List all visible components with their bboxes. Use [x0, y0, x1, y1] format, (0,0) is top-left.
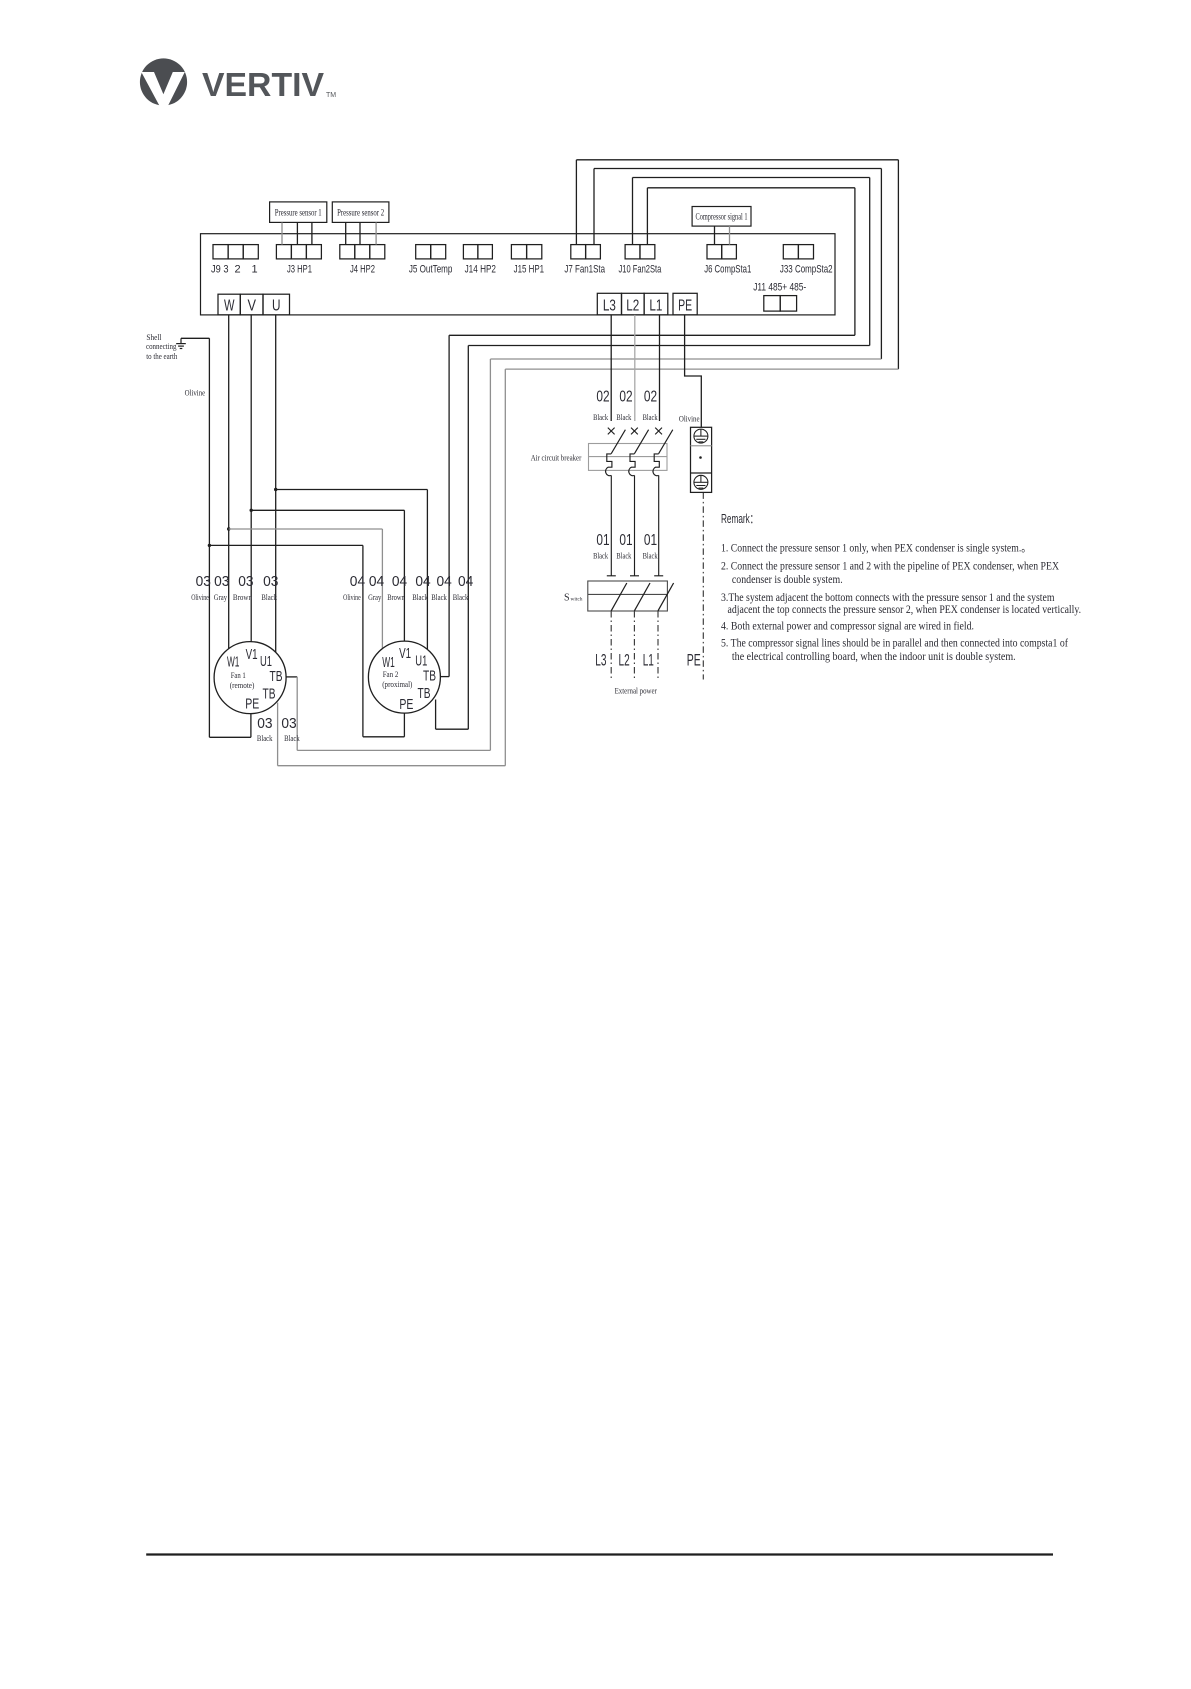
wire W branch run	[229, 528, 383, 530]
svg-text:L2: L2	[619, 651, 630, 669]
svg-text:Brown: Brown	[233, 592, 253, 602]
svg-text:03: 03	[214, 574, 229, 590]
svg-text:03: 03	[281, 716, 296, 732]
svg-text:U: U	[272, 298, 281, 315]
svg-text:Black: Black	[257, 733, 273, 743]
svg-text:2. Connect the pressure sensor: 2. Connect the pressure sensor 1 and 2 w…	[721, 561, 1060, 573]
svg-text:Black: Black	[453, 592, 469, 602]
svg-text:Brown: Brown	[387, 592, 405, 602]
wire fan1 TB2 drop	[277, 703, 279, 766]
svg-text:PE: PE	[399, 697, 413, 713]
svg-text:04: 04	[392, 574, 407, 590]
wire olivine vertical fan1	[208, 338, 210, 737]
svg-text:Black: Black	[284, 733, 300, 743]
svg-text:Fan 1: Fan 1	[231, 670, 246, 680]
wire V branch drop to fan2	[403, 510, 405, 641]
connector J33 CompSta2	[783, 245, 813, 259]
connector J6 CompSta1	[707, 245, 736, 259]
svg-text:Black: Black	[261, 592, 277, 602]
wire fan2 TB1 stub	[440, 676, 449, 678]
lead external L1	[657, 611, 659, 680]
wire pressure sensor2 pin c	[375, 222, 377, 244]
wire fan1 TB1 stub	[286, 676, 297, 678]
svg-text:S: S	[564, 592, 570, 603]
wire L2 to breaker	[634, 315, 636, 421]
Vertiv logo mark	[140, 58, 187, 106]
svg-text:Gray: Gray	[368, 592, 382, 602]
junction V branch	[250, 509, 253, 512]
wire L1 to breaker	[659, 315, 661, 421]
wire mid run 1	[449, 334, 855, 336]
svg-text:Black: Black	[593, 551, 609, 561]
lead external L2	[633, 611, 635, 680]
svg-text:04: 04	[350, 574, 365, 590]
svg-text:PE: PE	[687, 651, 701, 669]
wire drop to fan2 TB1	[448, 335, 450, 676]
svg-text:5. The compressor signal lines: 5. The compressor signal lines should be…	[721, 638, 1068, 650]
wire mid run 2	[468, 345, 869, 347]
disconnect switch body	[588, 581, 668, 611]
footer rule	[146, 1553, 1053, 1555]
svg-text:U1: U1	[260, 654, 272, 670]
svg-text:condenser is double system.: condenser is double system.	[732, 574, 843, 586]
wire pressure sensor1 pin a	[281, 222, 283, 244]
svg-text:Compressor signal 1: Compressor signal 1	[696, 211, 748, 221]
svg-text:External power: External power	[615, 685, 657, 695]
box Pressure sensor 2	[332, 202, 389, 223]
wire fan1 TB1 drop	[296, 677, 298, 751]
wire W branch drop to fan2	[381, 529, 383, 649]
svg-text:01: 01	[619, 532, 632, 549]
svg-text:J15 HP1: J15 HP1	[514, 263, 545, 275]
svg-text:Olivine: Olivine	[185, 387, 206, 397]
svg-text:Black: Black	[643, 412, 659, 422]
wire U branch run	[276, 489, 428, 491]
wire compressor signal pin a	[714, 226, 716, 245]
wire fan1 PE link	[209, 736, 251, 738]
svg-text:J10 Fan2Sta: J10 Fan2Sta	[619, 263, 662, 275]
box Pressure sensor 1	[270, 202, 327, 223]
wire mid run 4	[505, 368, 898, 370]
svg-text:L1: L1	[649, 298, 662, 315]
olivine block middle dot	[699, 456, 702, 459]
svg-text:V1: V1	[399, 646, 411, 662]
terminal block L3 L2 L1	[597, 293, 668, 315]
svg-text:L3: L3	[595, 651, 606, 669]
svg-text:TB: TB	[423, 668, 436, 684]
wire top run 3	[633, 177, 870, 179]
svg-text:L1: L1	[643, 651, 654, 669]
terminal block W V U	[218, 294, 290, 315]
wire V branch run	[251, 509, 404, 511]
earth terminal symbol at 436.1	[694, 429, 708, 443]
svg-text:connecting: connecting	[146, 341, 177, 351]
connector J5 OutTemp	[416, 245, 446, 259]
wire fan2 TB2 stub	[435, 700, 437, 730]
lead external L3	[610, 611, 612, 680]
switch blade 3	[658, 583, 674, 611]
connector J11	[764, 296, 797, 312]
controller board outline	[201, 234, 836, 315]
svg-text:J14 HP2: J14 HP2	[465, 263, 496, 275]
wire fan1 TB2 run	[278, 765, 506, 767]
breaker pole 2	[629, 428, 649, 576]
junction W branch	[227, 527, 230, 530]
wire right riser 2	[880, 169, 882, 360]
olivine earth terminal block	[691, 427, 712, 492]
svg-text:03: 03	[238, 574, 253, 590]
svg-text:adjacent the top connects the: adjacent the top connects the pressure s…	[728, 604, 1082, 616]
wire J10 pin1 riser	[632, 178, 634, 245]
box Compressor signal 1	[692, 207, 751, 227]
wire fan1 TB1 run	[297, 749, 490, 751]
wire J7 pin2 riser	[593, 169, 595, 245]
svg-text:02: 02	[644, 389, 657, 406]
svg-text:W1: W1	[227, 654, 240, 670]
svg-text:02: 02	[596, 389, 609, 406]
connector J10 Fan2Sta	[625, 245, 655, 259]
wire pressure sensor1 pin b	[296, 222, 298, 244]
svg-text:03: 03	[196, 574, 211, 590]
svg-text:W: W	[224, 298, 235, 315]
connector J3 HP1	[276, 245, 321, 259]
wire right riser 1	[897, 160, 899, 369]
wire V phase down to fan1	[250, 315, 252, 642]
svg-text:TB: TB	[270, 669, 283, 685]
switch blade 2	[634, 583, 650, 611]
svg-text:04: 04	[437, 574, 452, 590]
wire pressure sensor2 pin a	[345, 222, 347, 244]
wire right riser 4	[854, 188, 856, 335]
svg-text:04: 04	[369, 574, 384, 590]
wire U branch drop to fan2	[426, 490, 428, 650]
svg-text:(remote): (remote)	[230, 680, 255, 690]
connector J15 HP1	[511, 245, 541, 259]
svg-text:J7 Fan1Sta: J7 Fan1Sta	[564, 263, 605, 275]
wire fan2 PE link	[363, 736, 405, 738]
svg-text:01: 01	[644, 532, 657, 549]
svg-text:the electrical controlling boa: the electrical controlling board, when t…	[732, 651, 1016, 663]
wire U phase down to fan1	[275, 315, 277, 652]
svg-text:Olivine: Olivine	[679, 414, 700, 424]
svg-text:Pressure sensor 1: Pressure sensor 1	[275, 208, 322, 218]
wire fan2 TB2 run	[436, 728, 469, 730]
svg-text:J4 HP2: J4 HP2	[350, 263, 375, 275]
svg-text:Remark：: Remark：	[721, 512, 758, 526]
wire fan1 PE stub	[250, 714, 252, 738]
svg-text:J11 485+ 485-: J11 485+ 485-	[753, 282, 806, 294]
svg-text:V: V	[247, 298, 256, 315]
svg-text:to the earth: to the earth	[146, 351, 178, 361]
svg-text:04: 04	[415, 574, 430, 590]
svg-text:03: 03	[263, 574, 278, 590]
svg-text:Olivine: Olivine	[343, 592, 361, 602]
svg-text:1. Connect the pressure sensor: 1. Connect the pressure sensor 1 only, w…	[721, 543, 1031, 555]
wire drop to fan2 TB2	[467, 346, 469, 730]
wire drop to fan1 TB2	[504, 369, 506, 766]
earth terminal symbol at 482.3	[694, 475, 708, 489]
wire J10 pin2 riser	[646, 188, 648, 245]
svg-text:Black: Black	[593, 412, 609, 422]
wire PE to olivine block	[685, 315, 702, 427]
svg-text:2: 2	[234, 263, 240, 275]
svg-text:01: 01	[596, 532, 609, 549]
svg-text:03: 03	[257, 716, 272, 732]
svg-text:TB: TB	[418, 686, 431, 702]
svg-text:Black: Black	[616, 412, 632, 422]
svg-text:J5 OutTemp: J5 OutTemp	[409, 263, 453, 275]
wire fan2 PE stub	[403, 713, 405, 737]
connector J4 HP2	[340, 245, 385, 259]
wire top run 4	[647, 187, 855, 189]
fan motor M1 (Fan 1)	[214, 642, 286, 714]
wire olivine drop to fan2	[362, 545, 364, 736]
svg-text:Black: Black	[643, 551, 659, 561]
wire top run 1	[576, 159, 898, 161]
svg-text:TB: TB	[263, 687, 276, 703]
svg-text:4. Both external power and com: 4. Both external power and compressor si…	[721, 621, 974, 633]
wire earth to olivine riser	[181, 337, 209, 339]
svg-text:Fan 2: Fan 2	[383, 669, 399, 679]
svg-text:3.The system adjacent the bott: 3.The system adjacent the bottom connect…	[721, 592, 1055, 604]
svg-text:witch: witch	[571, 596, 583, 602]
svg-text:VERTIV: VERTIV	[202, 66, 324, 103]
wire L3 to breaker	[610, 315, 612, 421]
ground symbol shell earth	[176, 338, 186, 348]
svg-text:Air circuit breaker: Air circuit breaker	[531, 452, 582, 462]
connector J14 HP2	[463, 245, 492, 259]
lead external PE wire	[702, 492, 704, 679]
fan motor M2 (Fan 2)	[368, 641, 440, 713]
svg-text:PE: PE	[245, 697, 259, 713]
svg-text:Olivine: Olivine	[191, 592, 209, 602]
wire W phase down to fan1	[228, 315, 230, 649]
wire pressure sensor1 pin c	[311, 222, 313, 244]
svg-text:U1: U1	[415, 653, 427, 669]
svg-text:L3: L3	[603, 298, 616, 315]
wire compressor signal pin b	[729, 226, 731, 245]
svg-text:Black: Black	[431, 592, 447, 602]
svg-text:L2: L2	[626, 298, 639, 315]
wire J7 pin1 riser	[575, 160, 577, 245]
wire drop to fan1 TB1	[489, 359, 491, 750]
svg-text:(proximal): (proximal)	[382, 679, 412, 689]
svg-text:02: 02	[619, 389, 632, 406]
connector J7 Fan1Sta	[571, 245, 601, 259]
wire pressure sensor2 pin b	[359, 222, 361, 244]
svg-text:Pressure sensor 2: Pressure sensor 2	[337, 208, 384, 218]
breaker pole 3	[653, 428, 673, 576]
wire mid run 3	[490, 358, 881, 360]
air circuit breaker body	[589, 444, 668, 471]
svg-text:V1: V1	[246, 647, 258, 663]
breaker pole 1	[606, 428, 626, 576]
svg-text:J9 3: J9 3	[211, 263, 229, 275]
wire right riser 3	[869, 178, 871, 346]
svg-text:Black: Black	[412, 592, 428, 602]
svg-text:J3 HP1: J3 HP1	[287, 263, 312, 275]
connector J9	[213, 245, 258, 259]
svg-text:PE: PE	[678, 298, 692, 315]
switch blade 1	[611, 583, 627, 611]
svg-text:TM: TM	[326, 92, 336, 99]
svg-text:J33 CompSta2: J33 CompSta2	[780, 263, 833, 275]
svg-text:Gray: Gray	[214, 592, 228, 602]
svg-text:Black: Black	[616, 551, 632, 561]
wire top run 2	[594, 168, 881, 170]
svg-text:1: 1	[251, 263, 257, 275]
junction U branch	[274, 488, 277, 491]
terminal box PE	[673, 293, 697, 315]
junction olivine branch	[208, 544, 211, 547]
wire olivine branch run	[209, 544, 363, 546]
svg-text:J6 CompSta1: J6 CompSta1	[704, 263, 751, 275]
svg-text:04: 04	[458, 574, 473, 590]
